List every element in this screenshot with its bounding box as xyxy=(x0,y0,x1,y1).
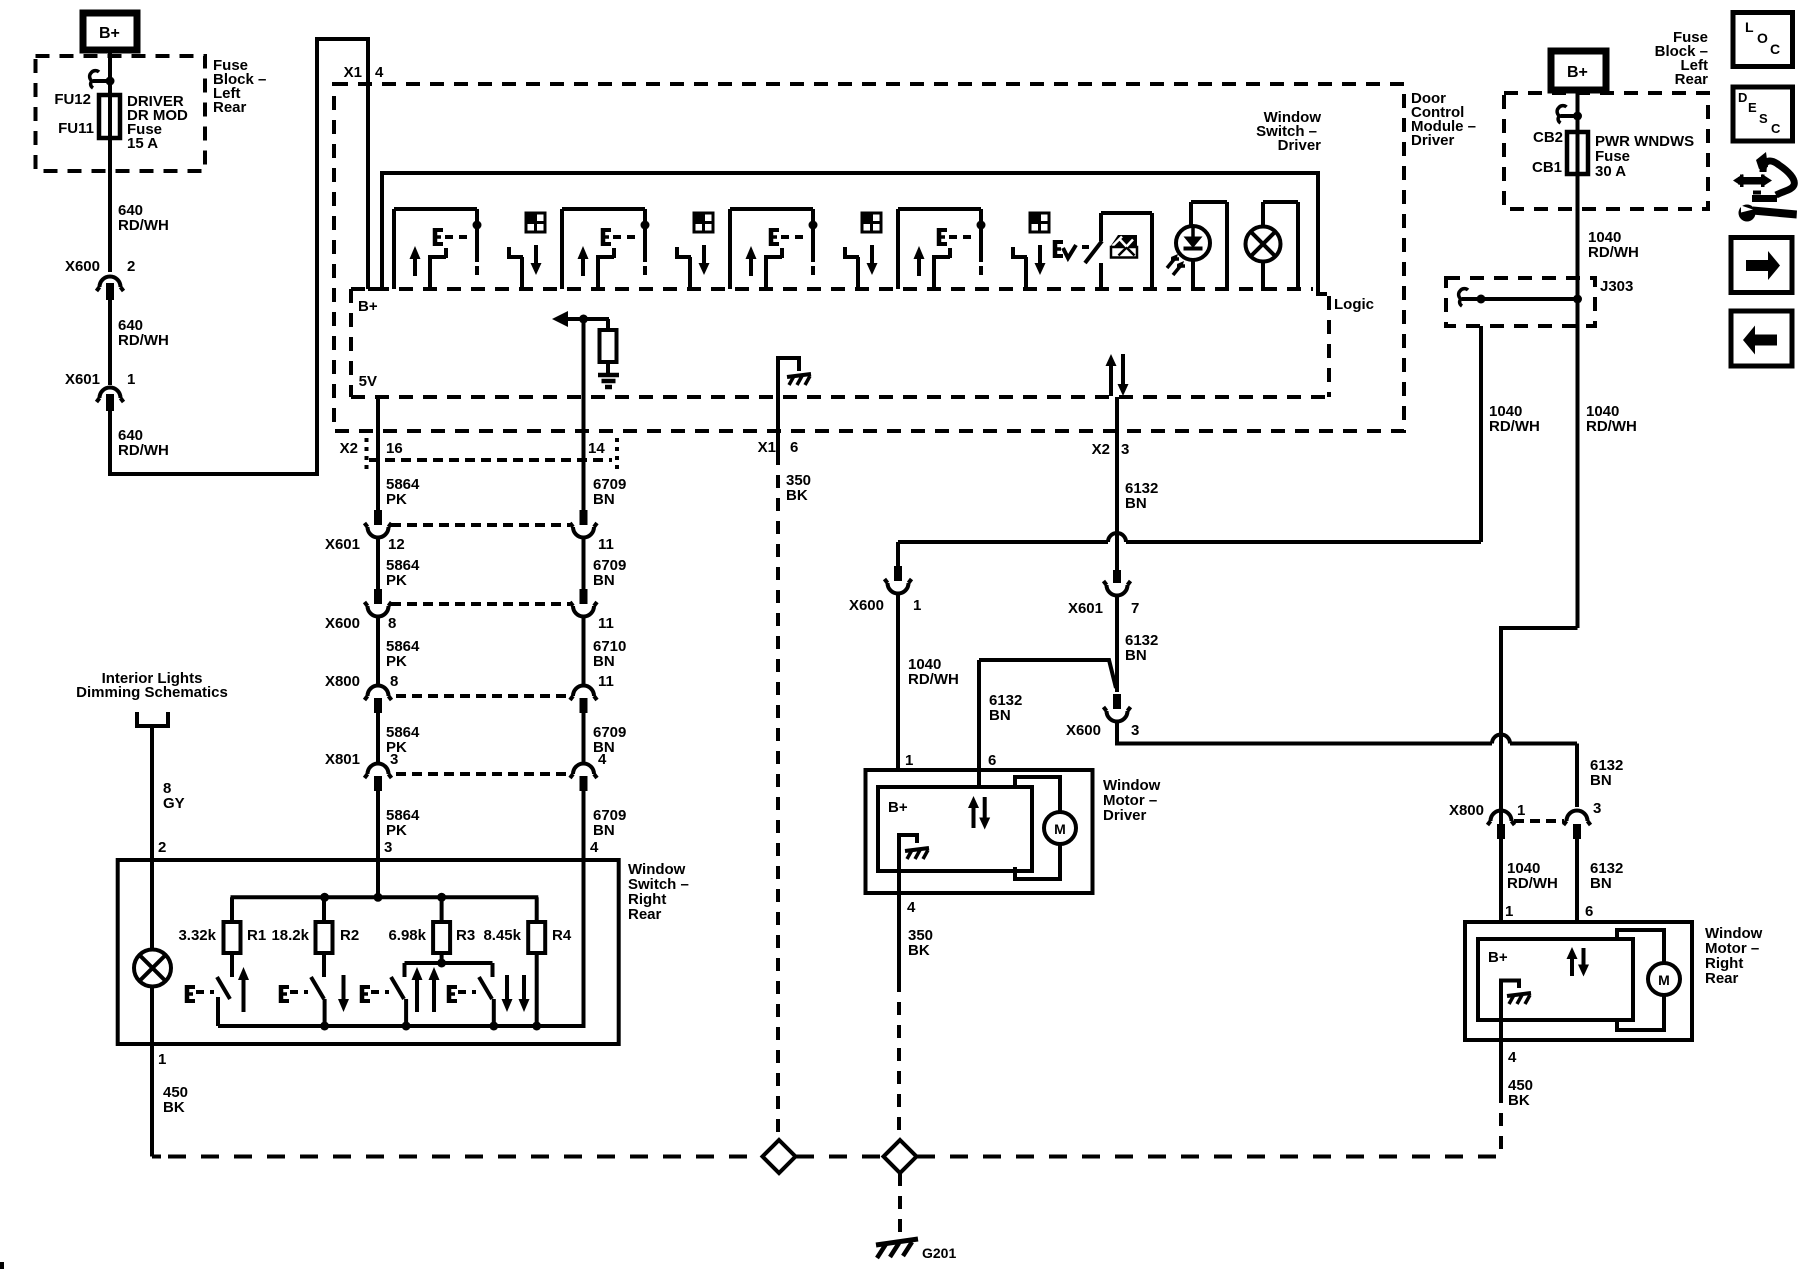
wire pin4 into box xyxy=(538,860,584,1026)
wire X600 to X601 xyxy=(108,300,112,385)
svg-text:3: 3 xyxy=(1131,722,1139,739)
switch 2 down arrow xyxy=(338,999,349,1012)
wire rr motor pin 4 xyxy=(1499,1040,1503,1090)
svg-text:BN: BN xyxy=(593,822,615,839)
svg-text:11: 11 xyxy=(598,615,614,632)
X800 row dashed line xyxy=(396,694,566,698)
svg-text:1: 1 xyxy=(127,371,135,388)
svg-text:3: 3 xyxy=(1121,441,1129,458)
switch 3 pivot wire xyxy=(404,999,408,1026)
svg-text:X2: X2 xyxy=(1092,441,1110,458)
X801 row dashed line xyxy=(396,772,566,776)
connector X800 row left xyxy=(368,686,389,697)
connector X800 pin 3 xyxy=(1567,811,1588,822)
svg-text:18.2k: 18.2k xyxy=(271,927,309,944)
wire lamp to pin 1 xyxy=(150,986,154,1044)
circuit breaker PWR WNDWS 30A xyxy=(1567,132,1588,174)
LED light arrows xyxy=(1167,257,1179,268)
wire X800-8 down xyxy=(376,713,380,764)
switch 1 pivot wire xyxy=(216,997,220,1026)
cell 2 E dashed link xyxy=(613,235,635,239)
svg-text:BK: BK xyxy=(908,942,930,959)
R3 left stub xyxy=(403,963,407,977)
connector X601 row right (pin11) xyxy=(580,510,588,525)
cell 3 solenoid E xyxy=(769,228,774,246)
chassis ground glyph (logic) xyxy=(787,374,811,377)
icon box left arrow xyxy=(1731,311,1792,366)
svg-text:RD/WH: RD/WH xyxy=(1586,418,1637,435)
svg-text:RD/WH: RD/WH xyxy=(118,442,169,459)
feed line hop over 6132 BN wire xyxy=(1479,326,1483,542)
switch 4 solenoid E xyxy=(447,985,452,1003)
window switch cell 3 up-contact frame xyxy=(728,209,732,289)
svg-text:Driver: Driver xyxy=(1103,807,1147,824)
wire 6132 BN corner down xyxy=(1575,744,1579,808)
cell 4 node dot xyxy=(977,221,986,230)
battery feed B+ terminal (right) xyxy=(1551,51,1606,90)
switch 4 blade xyxy=(479,977,492,999)
wire X601-12 down xyxy=(376,537,380,590)
ground rail right segment xyxy=(917,1155,1501,1159)
fuse DRIVER DR MOD 15A xyxy=(99,95,120,138)
wire X800-1 to motor xyxy=(1499,839,1503,922)
logic output arrow to interior lights dimming xyxy=(552,311,568,327)
wire right feed step to X800 xyxy=(1501,628,1578,824)
door control module driver dashed box xyxy=(334,84,1404,431)
resistor R2 xyxy=(316,922,333,953)
branch to motor direction pin xyxy=(979,660,1116,688)
wire X601-7 down xyxy=(1115,596,1119,693)
wire X600-8 down xyxy=(376,616,380,687)
cell 1 down contact blade xyxy=(507,255,523,259)
svg-text:Dimming Schematics: Dimming Schematics xyxy=(76,684,228,701)
svg-text:FU11: FU11 xyxy=(58,120,94,137)
icon curved-arrow vehicle glyph with wrench xyxy=(1733,174,1743,187)
svg-text:Rear: Rear xyxy=(1705,970,1739,987)
svg-text:6: 6 xyxy=(988,752,996,769)
window switch cell 1 up-contact frame xyxy=(392,209,396,289)
cell 1 solenoid E xyxy=(433,228,438,246)
cell 4 up arrow xyxy=(914,246,925,259)
svg-text:B+: B+ xyxy=(888,799,908,816)
wire X800-3 to motor xyxy=(1575,839,1579,922)
svg-text:11: 11 xyxy=(598,536,614,553)
switch 2 pivot wire xyxy=(323,999,327,1026)
svg-text:3: 3 xyxy=(384,839,392,856)
svg-text:RD/WH: RD/WH xyxy=(1489,418,1540,435)
switch 4 E dashes xyxy=(458,990,476,994)
svg-text:5V: 5V xyxy=(359,373,377,390)
logic pull-down resistor xyxy=(606,319,610,330)
switch 1 blade xyxy=(217,977,230,999)
rr motor loop xyxy=(1617,930,1664,963)
resistor R1 xyxy=(224,922,241,953)
switch 2 solenoid E xyxy=(279,985,284,1003)
LED diode symbol xyxy=(1184,237,1203,249)
svg-text:RD/WH: RD/WH xyxy=(908,671,959,688)
svg-text:BN: BN xyxy=(1125,647,1147,664)
svg-text:16: 16 xyxy=(386,440,403,457)
cell 3 window icon xyxy=(862,213,881,232)
svg-text:S: S xyxy=(1759,111,1768,126)
X2 row dashed line xyxy=(369,458,612,462)
ground rail left segment xyxy=(168,1155,762,1159)
hidden wire 350 BK to splice xyxy=(776,452,780,1140)
svg-text:Rear: Rear xyxy=(1675,71,1709,88)
svg-text:C: C xyxy=(1770,41,1780,57)
junction block J303 dashed box xyxy=(1446,278,1595,326)
bottom bus node dots xyxy=(320,1022,329,1031)
icon box DESC xyxy=(1733,87,1793,141)
svg-text:D: D xyxy=(1738,90,1747,105)
window switch cell 2 up-contact frame xyxy=(560,209,564,289)
page mark speck (bottom left) xyxy=(0,1262,4,1269)
resistor R3 xyxy=(433,922,450,953)
svg-text:BN: BN xyxy=(593,572,615,589)
svg-text:4: 4 xyxy=(598,751,607,768)
svg-text:BN: BN xyxy=(1590,875,1612,892)
wire B+ to fuse FU11 xyxy=(108,50,112,96)
J303 tap hook xyxy=(1459,289,1468,306)
svg-text:C: C xyxy=(1771,121,1781,136)
resistor R4 xyxy=(528,922,545,953)
express switch dashed link xyxy=(1082,245,1089,249)
express switch blade xyxy=(1085,241,1102,263)
svg-text:1: 1 xyxy=(1517,802,1525,819)
LED circle xyxy=(1176,226,1210,260)
lamp wire to logic xyxy=(1261,262,1265,292)
wire X2-3 down xyxy=(1115,397,1119,570)
cell 1 up contact blade xyxy=(428,258,432,289)
wire J303 down right xyxy=(1576,299,1580,628)
cell 1 node dot xyxy=(473,221,482,230)
wire dimming feed xyxy=(150,726,154,860)
switch 2 blade xyxy=(311,977,324,999)
svg-text:14: 14 xyxy=(588,440,605,457)
svg-text:X800: X800 xyxy=(1449,802,1484,819)
window motor driver inner box xyxy=(878,787,1032,871)
svg-text:12: 12 xyxy=(388,536,405,553)
svg-text:Logic: Logic xyxy=(1334,296,1374,313)
svg-text:2: 2 xyxy=(127,258,135,275)
svg-text:BN: BN xyxy=(1590,772,1612,789)
svg-text:8.45k: 8.45k xyxy=(483,927,521,944)
switch 4 pivot wire xyxy=(492,999,496,1026)
LED wire through xyxy=(1191,227,1195,237)
svg-text:6: 6 xyxy=(790,439,798,456)
svg-text:3.32k: 3.32k xyxy=(178,927,216,944)
svg-text:M: M xyxy=(1658,972,1670,988)
express switch frame xyxy=(1099,263,1103,289)
svg-text:4: 4 xyxy=(375,64,384,81)
svg-text:X601: X601 xyxy=(1068,600,1103,617)
svg-text:X600: X600 xyxy=(65,258,100,275)
svg-text:PK: PK xyxy=(386,491,407,508)
svg-text:X801: X801 xyxy=(325,751,360,768)
LED wire to logic xyxy=(1191,260,1195,291)
fuse block left rear dashed box xyxy=(36,56,206,171)
svg-text:1: 1 xyxy=(1505,903,1513,920)
cell 3 down contact blade xyxy=(843,255,859,259)
window switch right rear box xyxy=(118,860,619,1044)
cell 1 E dashed link xyxy=(445,235,467,239)
svg-text:O: O xyxy=(1757,30,1768,46)
connector X800 row right xyxy=(573,686,594,697)
driver motor updown arrows xyxy=(968,796,979,808)
cell 2 up contact blade xyxy=(596,258,600,289)
wire logic ground to X1-6 xyxy=(776,397,780,452)
wire B+ riser to switch bus xyxy=(368,173,1327,294)
lamp circle with X xyxy=(1246,227,1281,262)
svg-text:6.98k: 6.98k xyxy=(388,927,426,944)
svg-text:8: 8 xyxy=(388,615,396,632)
connector X600 pin 3 xyxy=(1113,694,1121,709)
cell 4 up contact blade xyxy=(932,258,936,289)
driver motor internal ground xyxy=(899,835,917,893)
cell 2 down contact blade xyxy=(675,255,691,259)
wire X801-3 to switch box xyxy=(376,791,380,860)
wire X801-4 to switch box xyxy=(582,791,586,860)
wire breaker through xyxy=(1576,132,1580,174)
switch 2 E dashes xyxy=(290,990,308,994)
J303 splice bus xyxy=(1462,297,1578,301)
X600 row dashed line xyxy=(391,602,570,606)
ground rail mid segment xyxy=(796,1155,883,1159)
switch 4 double down arrows xyxy=(502,999,513,1012)
svg-text:Driver: Driver xyxy=(1411,132,1455,149)
rr motor updown arrows xyxy=(1567,947,1578,959)
wire X601-11 down xyxy=(582,537,586,590)
motor M circle (driver) xyxy=(1044,812,1076,844)
svg-text:RD/WH: RD/WH xyxy=(118,332,169,349)
cell 3 up contact blade xyxy=(764,258,768,289)
wire driver motor pin 4 xyxy=(897,893,901,979)
svg-text:RD/WH: RD/WH xyxy=(1588,244,1639,261)
window motor driver outer box xyxy=(866,770,1093,893)
X2 connector separators xyxy=(365,438,369,472)
switch network top bus xyxy=(231,895,539,899)
svg-text:6: 6 xyxy=(1585,903,1593,920)
svg-text:3: 3 xyxy=(1593,800,1601,817)
cell 4 solenoid E xyxy=(937,228,942,246)
cell 2 solenoid E xyxy=(601,228,606,246)
connector X800 pin 1 xyxy=(1491,811,1512,822)
svg-text:R2: R2 xyxy=(340,927,359,944)
wire through fuse xyxy=(108,96,112,138)
bus bar tap hook (right) xyxy=(1561,114,1578,118)
switch network bottom bus xyxy=(218,1024,538,1028)
wire X601 down right and up to X1-4 xyxy=(110,39,368,474)
wire X600-11 down xyxy=(582,616,586,687)
svg-text:R1: R1 xyxy=(247,927,266,944)
chassis ground glyph (rr motor) xyxy=(1507,993,1531,996)
svg-text:PK: PK xyxy=(386,572,407,589)
switch 3 E dashes xyxy=(371,990,389,994)
svg-text:BK: BK xyxy=(1508,1092,1530,1109)
svg-text:BK: BK xyxy=(163,1099,185,1116)
svg-text:X600: X600 xyxy=(325,615,360,632)
switch 1 up arrow xyxy=(238,967,249,980)
cell 1 up arrow xyxy=(410,246,421,259)
svg-text:R4: R4 xyxy=(552,927,572,944)
window switch cell 4 up-contact frame xyxy=(896,209,900,289)
svg-text:CB1: CB1 xyxy=(1532,159,1562,176)
svg-text:1: 1 xyxy=(158,1051,166,1068)
lamp cell frame xyxy=(1261,202,1265,227)
wire bus to R3 xyxy=(440,897,444,963)
driver motor loop xyxy=(1015,777,1060,812)
connector X801 row right xyxy=(573,764,594,775)
svg-text:2: 2 xyxy=(158,839,166,856)
svg-text:PK: PK xyxy=(386,653,407,670)
svg-text:L: L xyxy=(1745,19,1754,35)
cell 3 E dashed link xyxy=(781,235,803,239)
connector X600 row right (pin11) xyxy=(580,589,588,604)
svg-text:4: 4 xyxy=(1508,1049,1517,1066)
wire B+ to breaker xyxy=(1576,90,1580,132)
logic resistor ground xyxy=(598,373,619,378)
window motor right rear inner box xyxy=(1478,939,1633,1020)
svg-text:Rear: Rear xyxy=(213,99,247,116)
wire logic splice to X2-14 xyxy=(582,319,586,510)
splice diamond (G201) xyxy=(884,1140,917,1173)
svg-text:BN: BN xyxy=(1125,495,1147,512)
svg-text:1: 1 xyxy=(905,752,913,769)
connector X801 row left xyxy=(368,764,389,775)
switch 3 blade xyxy=(391,977,404,999)
svg-text:30 A: 30 A xyxy=(1595,163,1626,180)
dimming lamp circle with X xyxy=(134,950,171,987)
LED cell frame xyxy=(1189,202,1193,227)
svg-text:11: 11 xyxy=(598,673,614,690)
X601 row dashed line xyxy=(391,523,570,527)
svg-text:PK: PK xyxy=(386,822,407,839)
svg-text:7: 7 xyxy=(1131,600,1139,617)
R3 right stub xyxy=(491,963,495,977)
window motor right rear outer box xyxy=(1465,922,1692,1040)
svg-text:4: 4 xyxy=(590,839,599,856)
svg-text:E: E xyxy=(1748,100,1757,115)
svg-text:X1: X1 xyxy=(344,64,362,81)
svg-text:RD/WH: RD/WH xyxy=(118,217,169,234)
bus node dots xyxy=(320,893,329,902)
cell 1 down arrow xyxy=(531,263,542,275)
X800 right dashed line xyxy=(1514,819,1564,823)
connector X600 pin 1 xyxy=(894,566,902,581)
svg-text:RD/WH: RD/WH xyxy=(1507,875,1558,892)
svg-text:R3: R3 xyxy=(456,927,475,944)
svg-text:BN: BN xyxy=(593,491,615,508)
svg-text:X601: X601 xyxy=(65,371,100,388)
wire 5V to X2-16 xyxy=(376,397,380,510)
svg-text:J303: J303 xyxy=(1600,278,1633,295)
bus bar tap hook at fuse block xyxy=(93,79,110,83)
cell 2 node dot xyxy=(641,221,650,230)
wire R2 to contact xyxy=(322,953,326,977)
cell 2 down arrow xyxy=(699,263,710,275)
cell 4 down contact blade xyxy=(1011,255,1027,259)
wire box pin 1 down xyxy=(150,1044,154,1157)
cell 3 down arrow xyxy=(867,263,878,275)
svg-text:BN: BN xyxy=(989,707,1011,724)
wire X600-3 to right rear xyxy=(1117,722,1492,744)
svg-text:4: 4 xyxy=(907,899,916,916)
fuse block right dashed box xyxy=(1504,93,1708,209)
connector X601 row left (pin12) xyxy=(374,510,382,525)
svg-text:BN: BN xyxy=(593,653,615,670)
svg-text:X1: X1 xyxy=(758,439,776,456)
switch 1 E dashes xyxy=(196,990,214,994)
svg-text:15 A: 15 A xyxy=(127,135,158,152)
switch 3 solenoid E xyxy=(360,985,365,1003)
connector X600 row left (pin8) xyxy=(374,589,382,604)
wire R4 to bottom bus xyxy=(535,953,539,1026)
svg-text:M: M xyxy=(1054,821,1066,837)
cell 2 up arrow xyxy=(578,246,589,259)
svg-text:X2: X2 xyxy=(340,440,358,457)
svg-text:G201: G201 xyxy=(922,1245,956,1261)
logic ground for X1-6 xyxy=(778,358,799,397)
svg-text:8: 8 xyxy=(390,673,398,690)
svg-text:X800: X800 xyxy=(325,673,360,690)
icon box LOC xyxy=(1733,13,1793,67)
wire X600-1 to motor box xyxy=(896,594,900,771)
express switch label Ev xyxy=(1053,240,1058,258)
wire bus to R1 xyxy=(230,897,234,922)
svg-text:GY: GY xyxy=(163,795,185,812)
wire X800-11 down xyxy=(582,713,586,764)
motor M circle (rr) xyxy=(1648,963,1680,995)
battery feed B+ terminal (top left) xyxy=(83,13,137,50)
wire bus to R4 xyxy=(535,897,539,922)
cell 1 window icon xyxy=(526,213,545,232)
svg-text:3: 3 xyxy=(390,751,398,768)
svg-text:B+: B+ xyxy=(99,25,120,42)
R3 split bar xyxy=(405,961,493,965)
connector X601 pin 7 xyxy=(1113,570,1121,583)
ground G201 symbol xyxy=(876,1239,918,1245)
wire fuse to X600 xyxy=(108,138,112,272)
svg-text:FU12: FU12 xyxy=(54,91,91,108)
svg-text:BK: BK xyxy=(786,487,808,504)
rr motor internal ground xyxy=(1501,981,1519,1041)
logic dashed box xyxy=(351,287,1313,291)
wire pin3 into box xyxy=(376,860,380,897)
svg-text:B+: B+ xyxy=(1488,949,1508,966)
interior lights off-page bracket xyxy=(137,712,168,726)
svg-text:Driver: Driver xyxy=(1278,137,1322,154)
chassis ground glyph (driver motor) xyxy=(905,848,929,851)
svg-text:X600: X600 xyxy=(1066,722,1101,739)
hidden wire motor 350 BK xyxy=(897,979,901,1140)
hidden wire rr 450 BK xyxy=(1499,1090,1503,1157)
wire R1 to contact xyxy=(230,953,234,977)
svg-text:1: 1 xyxy=(913,597,921,614)
svg-text:B+: B+ xyxy=(358,298,378,315)
cell 4 window icon xyxy=(1030,213,1049,232)
wire direction pin to motor box xyxy=(977,660,981,788)
splice diamond (350 BK) xyxy=(763,1140,796,1173)
cell 4 down arrow xyxy=(1035,263,1046,275)
express window icon xyxy=(1110,235,1137,247)
wire breaker to J303 xyxy=(1576,174,1580,299)
svg-text:X601: X601 xyxy=(325,536,360,553)
svg-text:X600: X600 xyxy=(849,597,884,614)
icon box right arrow xyxy=(1731,238,1792,293)
svg-text:B+: B+ xyxy=(1567,64,1588,81)
logic updown arrows (motor drive) xyxy=(1106,354,1117,366)
cell 3 up arrow xyxy=(746,246,757,259)
